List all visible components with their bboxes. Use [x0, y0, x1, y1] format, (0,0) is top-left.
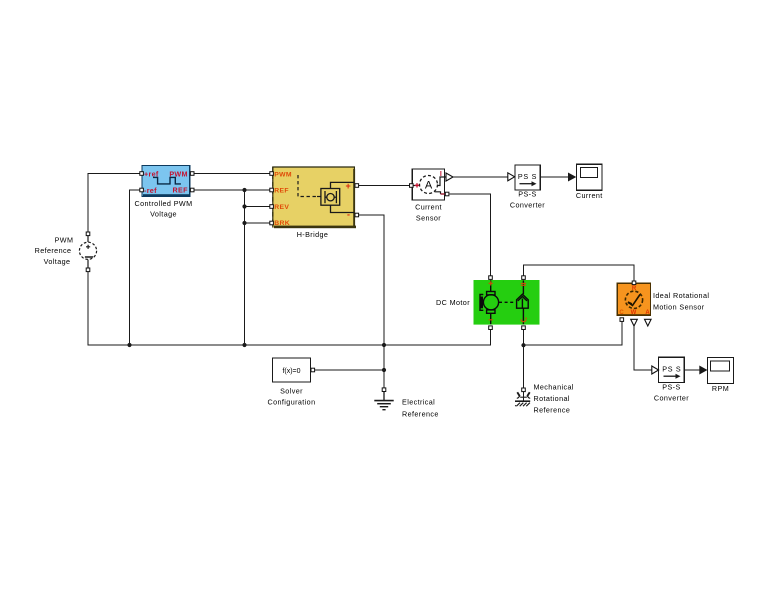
- svg-text:BRK: BRK: [274, 220, 290, 227]
- wire Current Sensor - to DC Motor +: [450, 194, 491, 276]
- inport chevron PS-S Converter: [508, 173, 515, 181]
- port H-Bridge REF in: [270, 188, 274, 192]
- electrical reference ground: [374, 392, 438, 419]
- wires layer: [88, 174, 701, 388]
- wire PWM signal: Controlled PWM Voltage PWM to H-Bridge PWM: [194, 173, 270, 175]
- dial icon: [625, 291, 642, 308]
- block DC Motor: [436, 280, 539, 325]
- dashed control line inside H-Bridge: [298, 175, 317, 197]
- switch symbol inside H-Bridge: [321, 182, 354, 212]
- svg-text:Reference: Reference: [534, 405, 571, 414]
- port PWM out: [190, 172, 194, 176]
- svg-text:Configuration: Configuration: [268, 397, 316, 406]
- port sensor R top: [632, 281, 636, 285]
- port H-Bridge PWM in: [270, 172, 274, 176]
- wire branch to H-Bridge BRK: [245, 222, 271, 224]
- wire PS-S Converter to Current scope: [541, 176, 571, 178]
- block PS-S Converter1: [654, 357, 689, 402]
- svg-text:+ref: +ref: [144, 169, 159, 178]
- block Controlled PWM Voltage: [135, 165, 193, 218]
- block RPM scope: [708, 358, 734, 394]
- port H-Bridge REV in: [270, 205, 274, 209]
- block Solver Configuration: [268, 358, 316, 406]
- block PWM Reference Voltage source V1: [35, 235, 97, 268]
- port electrical reference: [382, 388, 386, 392]
- junction bus dots: [127, 343, 131, 347]
- svg-text:RPM: RPM: [712, 384, 729, 393]
- pwm wave icon: [153, 177, 181, 184]
- port H-Bridge +: [355, 184, 359, 188]
- svg-text:PWM: PWM: [274, 171, 292, 178]
- port DC Motor R: [522, 326, 526, 330]
- svg-text:Motion Sensor: Motion Sensor: [653, 302, 705, 311]
- dashed shaft line: [499, 301, 516, 303]
- port V1 top: [86, 232, 90, 236]
- svg-text:PS-S: PS-S: [518, 190, 536, 199]
- svg-text:Rotational: Rotational: [534, 394, 570, 403]
- junction mechanical net: [521, 343, 525, 347]
- wire Current Sensor I to PS-S Converter input: [453, 176, 508, 178]
- svg-text:PWM: PWM: [169, 169, 187, 178]
- wire W signal down to PS-S Converter1 input: [634, 326, 652, 370]
- block PS-S Converter (current): [510, 165, 545, 209]
- svg-text:W: W: [631, 310, 637, 316]
- svg-text:C: C: [619, 310, 624, 316]
- block H-Bridge U2: [273, 167, 356, 239]
- wire H-Bridge + to Current Sensor +: [359, 185, 410, 187]
- wire REF net vertical down to bus: [244, 190, 246, 345]
- svg-text:Reference: Reference: [402, 409, 439, 418]
- wire DC Motor C to Ideal Rotational Motion Sensor R: [524, 265, 635, 281]
- arrowhead into Current scope: [568, 173, 576, 182]
- svg-text:R: R: [632, 286, 637, 292]
- port H-Bridge BRK in: [270, 221, 274, 225]
- wire ground bus: [88, 272, 491, 346]
- port H-Bridge -: [355, 213, 359, 217]
- svg-text:REF: REF: [274, 188, 289, 195]
- svg-text:H-Bridge: H-Bridge: [297, 230, 329, 239]
- svg-text:PS-S: PS-S: [662, 383, 680, 392]
- wire branch to H-Bridge REV: [245, 206, 271, 208]
- port DC Motor -: [489, 326, 493, 330]
- port +ref: [140, 172, 144, 176]
- mechanical rotational reference ground: [515, 382, 574, 414]
- wire mechanical net horizontal to sensor C: [524, 322, 622, 346]
- svg-text:PS S: PS S: [518, 172, 537, 181]
- svg-text:f(x)=0: f(x)=0: [282, 368, 300, 375]
- arrowhead into RPM scope: [699, 366, 707, 375]
- svg-text:Voltage: Voltage: [44, 257, 71, 266]
- svg-text:Current: Current: [415, 202, 442, 211]
- outport triangle Current Sensor I: [446, 173, 453, 181]
- port -ref: [140, 188, 144, 192]
- wire REF signal: Controlled PWM Voltage REF to H-Bridge REF: [194, 189, 270, 191]
- svg-text:Electrical: Electrical: [402, 397, 435, 406]
- svg-text:Controlled PWM: Controlled PWM: [135, 199, 193, 208]
- svg-text:Sensor: Sensor: [416, 213, 441, 222]
- svg-text:Solver: Solver: [280, 386, 303, 395]
- ammeter circle: [420, 176, 438, 194]
- svg-text:PS S: PS S: [662, 364, 681, 373]
- wire DC Motor R down to mechanical reference: [523, 330, 525, 388]
- port solver right: [311, 368, 315, 372]
- svg-text:-ref: -ref: [144, 186, 157, 195]
- wire H-Bridge - down to electrical reference node: [359, 215, 385, 388]
- port sensor C bottom: [620, 318, 624, 322]
- svg-text:Ideal Rotational: Ideal Rotational: [653, 291, 709, 300]
- internal leads: [412, 185, 419, 187]
- port Current Sensor +: [410, 184, 414, 188]
- orange port marks: [489, 281, 527, 321]
- svg-text:Reference: Reference: [35, 246, 72, 255]
- inport chevron PS-S Converter1: [652, 366, 659, 374]
- junction REF/REV: [242, 188, 246, 192]
- red + mark: [415, 183, 419, 187]
- signal port triangles: [446, 173, 659, 374]
- block Current scope: [576, 164, 603, 200]
- shaft housing icon: [517, 294, 529, 308]
- svg-text:A: A: [425, 180, 433, 192]
- port REF out: [190, 188, 194, 192]
- port squares layer: [86, 172, 636, 392]
- svg-text:REV: REV: [274, 204, 289, 211]
- svg-text:Mechanical: Mechanical: [534, 382, 574, 391]
- svg-text:I: I: [440, 171, 442, 178]
- block Current Sensor: [412, 169, 446, 222]
- svg-text:Current: Current: [576, 191, 603, 200]
- outport triangle W: [631, 319, 638, 326]
- svg-text:DC Motor: DC Motor: [436, 298, 470, 307]
- wire -ref: Controlled PWM Voltage -ref to ground bus: [130, 190, 141, 345]
- svg-text:+: +: [346, 181, 351, 191]
- port DC Motor C: [522, 276, 526, 280]
- wire PS-S Converter1 to RPM scope: [685, 369, 702, 371]
- port Current Sensor -: [445, 192, 449, 196]
- svg-text:A: A: [645, 310, 650, 316]
- wire Solver Configuration to node: [315, 369, 385, 371]
- svg-text:Converter: Converter: [510, 201, 545, 210]
- port mechanical reference: [522, 388, 526, 392]
- port DC Motor +: [489, 276, 493, 280]
- motor icon: [480, 281, 528, 325]
- svg-text:Converter: Converter: [654, 393, 689, 402]
- svg-text:-: -: [347, 210, 350, 220]
- wire +ref: voltage source top to Controlled PWM Voltage +ref: [88, 174, 140, 233]
- block Ideal Rotational Motion Sensor: [617, 283, 709, 316]
- svg-text:Voltage: Voltage: [150, 210, 177, 219]
- port V1 bottom: [86, 268, 90, 272]
- outport triangle A: [645, 319, 652, 326]
- svg-text:REF: REF: [173, 186, 189, 195]
- junction dots: [127, 188, 525, 372]
- arrowheads into scopes: [568, 173, 708, 375]
- svg-text:PWM: PWM: [55, 235, 74, 244]
